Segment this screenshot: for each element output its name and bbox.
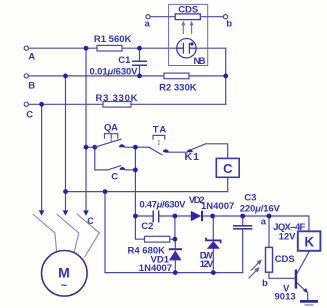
svg-text:C1: C1	[118, 55, 131, 66]
wire VD2 leads	[175, 215, 213, 217]
wire QA row	[86, 146, 95, 148]
terminal C	[24, 102, 28, 106]
wire control return line	[66, 191, 228, 193]
svg-text:NB: NB	[194, 56, 206, 67]
svg-text:C: C	[223, 161, 233, 176]
terminal b (top)	[223, 15, 227, 19]
wire phase A	[29, 47, 97, 49]
diode VD1 1N4007	[169, 249, 182, 260]
svg-text:R3 330K: R3 330K	[96, 93, 138, 104]
svg-text:12V: 12V	[200, 259, 214, 270]
wire rail right of QA down to C2	[134, 147, 136, 216]
svg-text:9013: 9013	[275, 291, 296, 302]
wire holding contact to rail	[125, 169, 135, 171]
wire NB to right rail	[196, 47, 226, 49]
svg-text:1N4007: 1N4007	[201, 201, 234, 212]
svg-text:12V: 12V	[279, 231, 297, 242]
wire drop from A	[85, 48, 87, 210]
contact QA (start button)	[95, 134, 122, 148]
photoresistor CDS (bottom)	[266, 247, 273, 272]
svg-text:220μ/16V: 220μ/16V	[240, 203, 281, 214]
svg-text:B: B	[28, 81, 35, 92]
relay box K	[298, 231, 321, 251]
wire K1 to C coil	[206, 144, 228, 159]
svg-text:K1: K1	[185, 151, 200, 163]
contact K1 (relay contact)	[187, 149, 193, 152]
wire ground stem	[307, 293, 309, 300]
coil box C (contactor coil)	[216, 158, 239, 177]
transistor V 9013	[295, 270, 297, 289]
wire R2 right lead	[189, 75, 226, 77]
svg-text:b: b	[226, 18, 232, 29]
wire QA bump to rail	[125, 146, 136, 148]
wire C2R4 left rail	[135, 216, 144, 239]
svg-text:CDS: CDS	[275, 254, 295, 265]
wire node a down to CDS	[268, 216, 270, 247]
wire C3 leads	[242, 216, 244, 273]
wire C1 leads	[139, 48, 141, 76]
wire collector to K	[297, 251, 309, 274]
wire elbow to holding contact C	[95, 147, 108, 170]
wire drop from C	[41, 104, 43, 210]
svg-text:TA: TA	[153, 125, 167, 136]
svg-text:1N4007: 1N4007	[139, 263, 172, 274]
wire CDS bottom to base	[269, 272, 295, 278]
svg-text:M: M	[58, 265, 70, 281]
svg-text:C3: C3	[244, 193, 256, 204]
svg-text:C: C	[26, 110, 33, 121]
wire phase A right of R1	[122, 47, 177, 49]
resistor R3	[103, 102, 131, 108]
capacitor C2	[153, 211, 159, 223]
svg-text:~: ~	[61, 280, 68, 292]
wire right rail NB-R2-R3	[225, 48, 227, 104]
resistor R1	[97, 45, 122, 51]
wire supply rail down	[104, 192, 106, 273]
diode VD2 1N4007	[191, 211, 202, 222]
svg-text:C: C	[111, 172, 118, 183]
wire C2 branch right	[159, 215, 175, 217]
terminal A	[24, 46, 28, 50]
wire DW leads	[212, 216, 214, 273]
wire terminal a to LDR	[150, 16, 175, 18]
ground	[300, 300, 318, 303]
svg-text:a: a	[261, 217, 267, 228]
svg-text:C2: C2	[141, 221, 153, 232]
terminal B	[24, 74, 28, 78]
light arrows (bottom CDS)	[249, 263, 259, 279]
svg-text:R2 330K: R2 330K	[159, 83, 197, 94]
contactor C main poles (arrows)	[39, 210, 89, 215]
light arrows to CDS	[183, 25, 191, 34]
svg-text:C: C	[87, 216, 94, 226]
wire phase B	[29, 75, 164, 77]
wire emitter	[297, 283, 305, 291]
svg-text:K: K	[304, 235, 314, 250]
contactor blades	[33, 214, 100, 257]
resistor R4	[145, 236, 170, 242]
svg-text:CDS: CDS	[178, 4, 198, 15]
resistor R2	[164, 73, 189, 79]
svg-text:QA: QA	[104, 122, 118, 133]
wire R4 right lead	[170, 216, 175, 239]
neon bulb NB	[177, 39, 196, 58]
wire C coil bottom	[227, 177, 229, 191]
svg-text:0.01μ/630V: 0.01μ/630V	[90, 67, 139, 78]
wire TA to K1	[166, 151, 187, 153]
photoresistor CDS (top)	[175, 14, 200, 20]
wire rail to TA	[135, 146, 148, 148]
wire R3 right lead	[131, 103, 226, 105]
wire bottom rail	[105, 272, 243, 274]
svg-text:0.47μ/630V: 0.47μ/630V	[140, 199, 187, 210]
emitter arrowhead	[303, 288, 308, 294]
wire phase C	[29, 103, 103, 105]
svg-text:a: a	[145, 18, 151, 29]
contact TA (thermal, NC)	[149, 135, 165, 155]
svg-text:R1 560K: R1 560K	[94, 34, 132, 45]
contact C (holding)	[108, 166, 122, 170]
capacitor C1	[132, 61, 147, 65]
svg-text:b: b	[262, 278, 268, 289]
terminal a (top)	[146, 15, 150, 19]
wire C2 branch left	[135, 215, 152, 217]
CDS assembly box	[169, 4, 208, 65]
wire drop from B	[65, 76, 67, 211]
svg-text:A: A	[28, 52, 35, 63]
motor M	[42, 250, 88, 296]
zener DW	[206, 238, 221, 249]
capacitor C3	[233, 226, 252, 229]
wire LDR to terminal b	[200, 16, 223, 18]
junction node dots	[39, 46, 271, 275]
wire VD1 leads	[174, 239, 176, 272]
wire dc bus to node a	[213, 216, 309, 231]
